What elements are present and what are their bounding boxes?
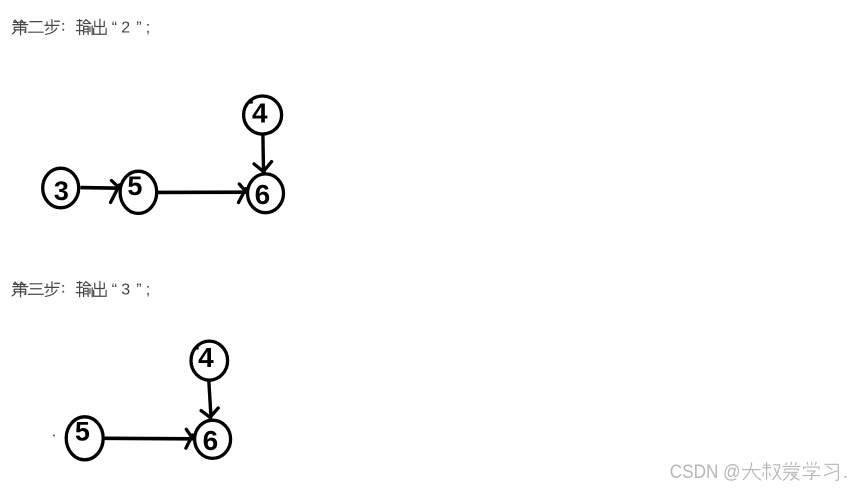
- edge 5 to 6 wire: [104, 436, 193, 440]
- svg-text:CSDN @: CSDN @: [670, 460, 741, 482]
- fullwidth colon: [62, 23, 64, 31]
- char 习: [825, 464, 839, 480]
- svg-text:”: ”: [136, 282, 141, 299]
- char 第: [12, 20, 28, 35]
- svg-text:3: 3: [54, 176, 69, 206]
- char 学: [803, 462, 820, 479]
- char 步: [45, 282, 60, 297]
- svg-text:;: ;: [146, 282, 150, 299]
- fullwidth colon: [62, 285, 64, 293]
- heading step2: 第二步：输出 " 2 ";: [12, 19, 150, 36]
- char 大: [743, 463, 761, 480]
- char 叔: [763, 462, 781, 479]
- node 4 circle notch: [249, 100, 253, 104]
- node 5 circle: [66, 417, 103, 460]
- node 4 circle notch: [195, 346, 199, 350]
- char 出: [94, 281, 106, 296]
- svg-text:3: 3: [121, 282, 130, 299]
- svg-text:“: “: [112, 20, 117, 37]
- node 5 circle: [120, 171, 157, 213]
- char 出: [94, 19, 106, 34]
- svg-text:5: 5: [127, 171, 142, 201]
- svg-text:“: “: [112, 282, 117, 299]
- svg-text:6: 6: [203, 425, 219, 456]
- arrowhead of edge 3 to 5: [111, 181, 120, 203]
- svg-text:4: 4: [252, 98, 268, 129]
- edge 4 to 6 wire: [261, 135, 265, 171]
- diagram 2: [53, 341, 230, 460]
- char 第: [12, 282, 28, 297]
- arrowhead of edge 5 to 6: [239, 184, 247, 203]
- node 3 circle: [43, 168, 79, 208]
- edge 5 to 6 wire: [157, 190, 246, 194]
- svg-text:6: 6: [255, 179, 271, 210]
- arrowhead of edge 5 to 6: [186, 429, 193, 448]
- char 输: [76, 19, 92, 34]
- svg-text:4: 4: [198, 342, 214, 373]
- node 6 circle: [248, 174, 284, 213]
- node 6 circle: [195, 420, 231, 458]
- stray dot: [53, 435, 55, 437]
- edge 4 to 6 wire: [209, 381, 211, 416]
- node 4 circle: [191, 341, 228, 380]
- watermark CSDN @...: [670, 460, 848, 483]
- node 4 circle: [244, 96, 282, 134]
- svg-text:.: .: [843, 461, 848, 483]
- char 输: [76, 281, 92, 296]
- char 步: [45, 20, 60, 35]
- svg-text:”: ”: [136, 20, 141, 37]
- svg-text:2: 2: [121, 20, 130, 37]
- heading step3: 第三步：输出 " 3 ";: [12, 281, 150, 298]
- arrowhead of edge 4 to 6: [254, 162, 272, 173]
- svg-text:5: 5: [75, 417, 90, 447]
- edge 3 to 5 wire: [81, 186, 120, 190]
- diagram 1: [43, 96, 284, 213]
- char 爱: [783, 462, 800, 480]
- char 二: [28, 22, 43, 33]
- svg-text:;: ;: [146, 20, 150, 37]
- arrowhead of edge 4 to 6: [201, 408, 218, 418]
- char 三: [28, 284, 43, 294]
